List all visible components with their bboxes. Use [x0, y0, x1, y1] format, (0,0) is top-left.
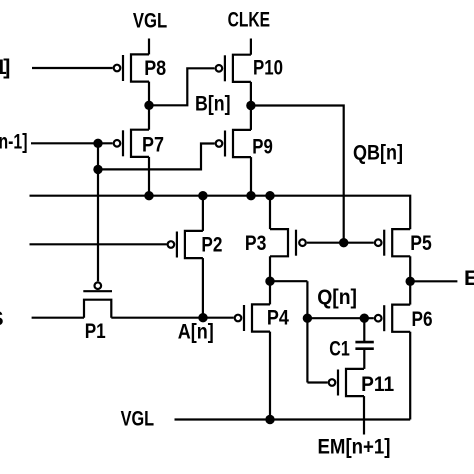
node bus/P7 dot — [144, 191, 153, 200]
wire P11 gate to Q vertical — [307, 381, 327, 383]
wire P9 drain down to bus — [250, 157, 252, 196]
node P9 gate branch dot — [93, 165, 102, 174]
wire branch to P9 gate — [98, 144, 215, 170]
svg-text:]: ] — [3, 55, 10, 79]
transistor P9 — [216, 130, 251, 157]
transistor P2 — [168, 231, 203, 258]
wire Q branch down to P4 source — [269, 281, 271, 304]
wire P2 source up to bus — [202, 196, 204, 231]
wire P8 drain down to P7 source (node B[n]) — [148, 82, 150, 130]
wire gate of P8 from left edge — [32, 67, 113, 69]
transistor P4 — [235, 304, 270, 331]
wire vertical from P7 gate node down to P1 gate — [97, 143, 99, 281]
wire P10 drain down to P9 source — [250, 82, 252, 130]
svg-text:VGL: VGL — [133, 9, 167, 33]
node bus/P9 dot — [246, 191, 255, 200]
wire Q vertical down to P11 gate — [306, 281, 308, 382]
wire node E to right edge — [410, 280, 457, 282]
svg-text:E: E — [464, 266, 474, 290]
node bus/P2 dot — [198, 191, 207, 200]
wire P4 drain down to VGL rail — [269, 332, 271, 420]
wire VGL lead to P8 source — [148, 39, 150, 55]
svg-text:P8: P8 — [144, 56, 166, 80]
svg-text:Q[n]: Q[n] — [317, 285, 357, 309]
node QB source junction dot — [246, 101, 255, 110]
svg-text:C1: C1 — [329, 336, 350, 360]
wire P1 source from left edge — [32, 317, 84, 319]
wire VGL bottom rail — [175, 418, 411, 420]
transistor P8 — [114, 54, 149, 81]
node A[n] dot — [198, 313, 207, 322]
wire P3 drain down to Q branch node — [269, 256, 271, 281]
transistor P1 (gate on top) — [83, 282, 112, 317]
svg-text:EM[n+1]: EM[n+1] — [318, 435, 391, 459]
svg-text:S: S — [0, 307, 4, 331]
wire node to QB[n] vertical — [251, 106, 344, 243]
transistor P3 — [270, 229, 306, 256]
svg-text:P5: P5 — [410, 231, 432, 255]
svg-text:B[n]: B[n] — [195, 92, 231, 116]
svg-text:P4: P4 — [267, 305, 289, 329]
wire gate of P7 from left edge — [31, 142, 113, 144]
wire P3/P5 gate link — [307, 242, 374, 244]
node Q[n]/C1 dot — [360, 314, 369, 323]
wire gate of P2 from left edge — [30, 243, 167, 245]
wire P7 drain down to bus — [148, 157, 150, 196]
transistor P6 — [375, 305, 410, 332]
wire P11 drain down to EM[n+1] — [363, 396, 365, 434]
svg-text:n-1]: n-1] — [0, 130, 28, 154]
capacitor C1 top lead — [363, 318, 365, 341]
node rail/P4 dot — [265, 415, 274, 424]
node QB/gates junction dot — [339, 238, 348, 247]
wire horizontal bus (row 1) — [30, 196, 411, 229]
node Q branch dot — [265, 277, 274, 286]
transistor P7 — [114, 130, 149, 157]
wire P2 drain down to node A[n] — [202, 258, 204, 318]
wire P6 drain down to VGL rail corner — [409, 332, 411, 420]
wire Q branch horizontal — [270, 280, 307, 282]
svg-text:A[n]: A[n] — [178, 320, 214, 344]
svg-text:P1: P1 — [85, 319, 106, 343]
wire node A[n] to P4 gate — [111, 317, 233, 319]
svg-text:P3: P3 — [245, 231, 267, 255]
wire node E vertical (P5 to P6) — [409, 281, 411, 304]
capacitor C1 bottom lead to P11 source — [363, 350, 365, 369]
svg-text:P10: P10 — [253, 55, 283, 79]
wire node B[n] to P10 gate — [149, 68, 214, 105]
wire P3 source up to bus — [269, 196, 271, 229]
wire P5 drain down to node E — [409, 256, 411, 281]
wire Q[n] to P6 gate — [307, 317, 373, 319]
node Q[n] dot — [303, 314, 312, 323]
svg-text:CLKE: CLKE — [228, 8, 270, 32]
svg-text:QB[n]: QB[n] — [353, 141, 403, 165]
svg-text:P2: P2 — [201, 232, 222, 256]
svg-text:P7: P7 — [142, 133, 164, 157]
svg-text:VGL: VGL — [121, 406, 155, 430]
transistor P11 — [329, 369, 364, 396]
svg-text:P11: P11 — [361, 372, 394, 396]
transistor P10 — [216, 55, 251, 82]
node B[n] junction dot — [144, 101, 153, 110]
svg-text:P6: P6 — [412, 307, 433, 331]
transistor P5 — [375, 229, 410, 256]
svg-text:P9: P9 — [252, 134, 273, 158]
wire CLKE lead to P10 source — [250, 39, 252, 55]
capacitor C1 — [355, 342, 373, 349]
node bus/P3 dot — [265, 191, 274, 200]
node P7 gate junction dot — [93, 139, 102, 148]
node E dot — [406, 277, 415, 286]
